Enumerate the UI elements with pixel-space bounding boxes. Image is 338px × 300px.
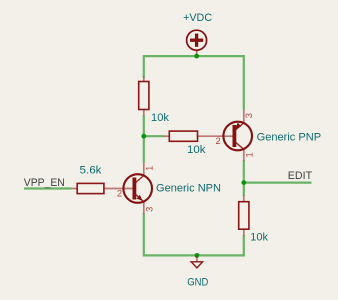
transistor Q1 Generic NPN [123,163,152,215]
junction node A [141,134,146,139]
wire R1 bottom through node A to NPN collector [143,116,145,163]
wire node A to R2 left [144,135,164,137]
svg-text:2: 2 [117,188,122,199]
wire VPP_EN to R3 left [24,187,72,189]
wire PNP collector down to R4 top [243,161,245,196]
svg-text:1: 1 [244,152,255,157]
svg-text:5.6k: 5.6k [80,165,102,177]
wire NPN emitter down to bottom rail and across to R4 [144,214,244,256]
resistor R2 horizontal 10k [164,131,234,141]
svg-text:VPP_EN: VPP_EN [24,177,65,189]
svg-text:3: 3 [243,113,254,118]
svg-text:2: 2 [215,135,220,146]
svg-text:EDIT: EDIT [288,170,312,182]
wire VCC top rail with drops to R1 and PNP [144,56,244,109]
transistor Q2 Generic PNP [223,110,252,162]
resistor R3 horizontal 5.6k [72,183,134,193]
junction node EDIT [241,180,246,185]
ground symbol [191,255,202,268]
resistor R4 vertical 10k [239,195,249,236]
svg-text:10k: 10k [151,112,169,124]
svg-text:10k: 10k [187,144,206,156]
svg-text:GND: GND [187,276,208,288]
power symbol +VDC [187,30,207,56]
resistor R1 vertical 10k [139,77,149,117]
svg-text:Generic NPN: Generic NPN [156,183,221,195]
svg-text:Generic PNP: Generic PNP [257,131,322,143]
svg-text:10k: 10k [250,231,268,243]
svg-text:1: 1 [144,166,155,171]
junction dot top rail [194,54,199,59]
svg-text:+VDC: +VDC [183,12,212,24]
junction node GND [195,253,200,258]
svg-text:3: 3 [144,207,155,212]
wire EDIT branch [244,182,312,184]
